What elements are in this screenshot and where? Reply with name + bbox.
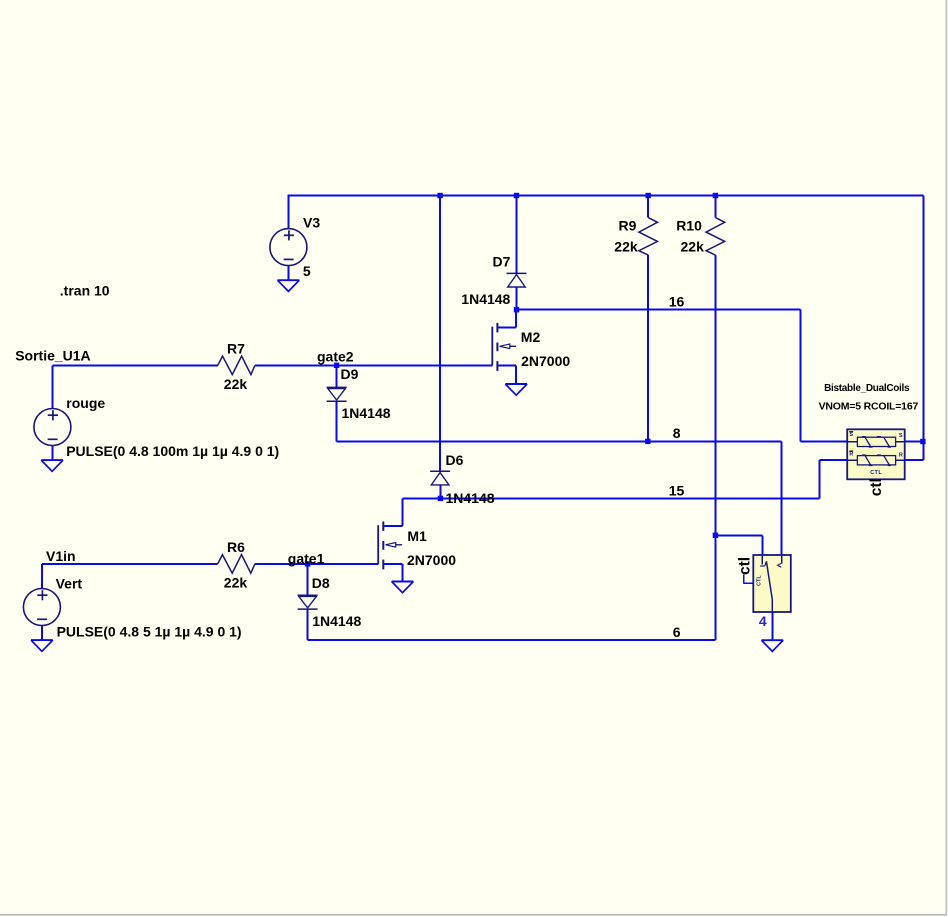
svg-text:D9: D9 <box>341 366 359 382</box>
svg-text:S: S <box>899 433 903 439</box>
svg-text:Sortie_U1A: Sortie_U1A <box>15 347 90 363</box>
svg-text:1N4148: 1N4148 <box>312 613 361 629</box>
svg-text:V3: V3 <box>303 214 320 230</box>
svg-text:ctl: ctl <box>868 478 885 496</box>
svg-text:6: 6 <box>673 624 681 640</box>
svg-text:R9: R9 <box>619 218 637 234</box>
svg-text:.tran 10: .tran 10 <box>60 282 110 298</box>
svg-text:gate1: gate1 <box>288 551 325 567</box>
svg-text:rouge: rouge <box>66 395 105 411</box>
svg-text:1N4148: 1N4148 <box>342 405 391 421</box>
svg-text:PULSE(0 4.8 100m 1µ 1µ 4.9 0 1: PULSE(0 4.8 100m 1µ 1µ 4.9 0 1) <box>66 443 279 459</box>
svg-text:PULSE(0 4.8 5 1µ 1µ 4.9 0 1): PULSE(0 4.8 5 1µ 1µ 4.9 0 1) <box>57 624 242 640</box>
svg-text:1N4148: 1N4148 <box>461 291 510 307</box>
svg-text:R: R <box>899 452 903 458</box>
svg-text:22k: 22k <box>224 574 248 590</box>
svg-text:4: 4 <box>759 613 767 629</box>
svg-text:V1in: V1in <box>46 548 76 564</box>
svg-text:16: 16 <box>669 293 685 309</box>
svg-text:8: 8 <box>673 425 681 441</box>
svg-text:D6: D6 <box>446 452 464 468</box>
svg-text:M2: M2 <box>521 329 541 345</box>
svg-text:15: 15 <box>669 482 685 498</box>
svg-text:CTL: CTL <box>870 470 882 476</box>
svg-text:R6: R6 <box>227 539 245 555</box>
svg-text:M1: M1 <box>407 528 427 544</box>
svg-text:22k: 22k <box>224 376 248 392</box>
svg-text:22k: 22k <box>614 238 638 254</box>
svg-text:R: R <box>849 452 853 458</box>
svg-text:CTL: CTL <box>757 575 763 586</box>
svg-text:S: S <box>849 432 853 438</box>
svg-text:Bistable_DualCoils: Bistable_DualCoils <box>824 383 910 394</box>
svg-text:D8: D8 <box>312 575 330 591</box>
svg-text:R10: R10 <box>676 218 702 234</box>
svg-text:2N7000: 2N7000 <box>521 353 570 369</box>
svg-text:2N7000: 2N7000 <box>407 552 456 568</box>
svg-text:D7: D7 <box>493 253 511 269</box>
svg-text:ctl: ctl <box>737 557 754 575</box>
svg-text:1N4148: 1N4148 <box>446 490 495 506</box>
svg-text:22k: 22k <box>681 238 705 254</box>
svg-text:5: 5 <box>303 263 311 279</box>
svg-text:VNOM=5 RCOIL=167: VNOM=5 RCOIL=167 <box>819 401 919 413</box>
svg-text:R7: R7 <box>227 340 245 356</box>
svg-text:gate2: gate2 <box>317 348 354 364</box>
svg-text:Vert: Vert <box>56 575 83 591</box>
